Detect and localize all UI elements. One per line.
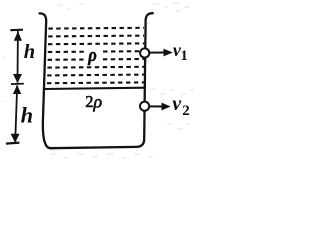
svg-text:1: 1 bbox=[181, 48, 188, 64]
svg-text:2: 2 bbox=[182, 103, 190, 119]
dimension arrow h2 (double-headed, bottom layer depth) bbox=[6, 85, 21, 144]
tick bar between the two h arrows bbox=[11, 83, 24, 86]
svg-text:h: h bbox=[24, 41, 35, 63]
clearing behind rho label bbox=[87, 49, 100, 66]
arrow v2 bbox=[149, 105, 162, 107]
liquid rho dotted pattern bbox=[47, 28, 145, 83]
container outline (walls with curled lips and rounded bottom) bbox=[40, 13, 153, 148]
hole 2 circle bbox=[140, 102, 149, 111]
svg-text:2ρ: 2ρ bbox=[85, 91, 102, 111]
arrow v1 bbox=[149, 52, 164, 54]
hole 1 circle bbox=[140, 48, 149, 57]
dimension arrow h1 (double-headed, top layer depth) bbox=[10, 30, 23, 83]
svg-text:v: v bbox=[172, 93, 182, 115]
interface line between layers bbox=[44, 88, 145, 89]
svg-text:ρ: ρ bbox=[87, 44, 97, 65]
svg-text:h: h bbox=[21, 102, 34, 127]
